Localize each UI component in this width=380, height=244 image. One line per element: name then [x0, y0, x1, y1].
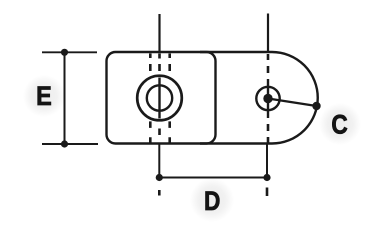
hidden line right of socket — [168, 54, 171, 143]
left center line dashes inside body top — [158, 54, 161, 72]
left socket inner circle — [147, 85, 172, 110]
dimension E top dot — [61, 49, 68, 56]
left socket outer circle — [137, 76, 182, 121]
dimension D right extension line — [266, 144, 268, 178]
label halo E — [23, 75, 65, 117]
label halo C — [319, 103, 361, 145]
right center line above body — [267, 14, 269, 53]
dimension E top extension line — [42, 51, 97, 53]
dimension D left extension line — [158, 144, 160, 178]
set screw hole circle — [256, 87, 279, 110]
left center line above body — [158, 14, 160, 52]
dimension E bottom extension line — [42, 143, 98, 145]
leader end dot on body edge — [312, 102, 320, 110]
left center line dash below socket — [158, 129, 161, 136]
dimension E bottom dot — [61, 140, 68, 147]
leader line to C — [268, 99, 317, 107]
set screw center dot — [263, 94, 272, 103]
body boss (right rounded end) — [200, 52, 318, 144]
label halo D — [190, 178, 234, 222]
dimension D line — [159, 177, 267, 179]
center line dash below right dot — [266, 188, 269, 197]
body collar (left rounded rectangle) — [107, 52, 216, 144]
hidden line left of socket — [149, 54, 152, 143]
right center line dashes below screw hole — [267, 124, 270, 143]
svg-text:D: D — [204, 186, 220, 216]
right center line dashes inside body top — [267, 54, 270, 73]
left center line long dash through socket — [158, 78, 160, 119]
dimension D left dot — [156, 174, 163, 181]
svg-text:C: C — [331, 109, 347, 139]
center line dash below left dot — [158, 190, 161, 196]
dimension D right dot — [263, 174, 270, 181]
svg-text:E: E — [36, 82, 52, 112]
dimension E line — [64, 52, 66, 144]
right center line long dash through screw hole — [267, 79, 269, 118]
